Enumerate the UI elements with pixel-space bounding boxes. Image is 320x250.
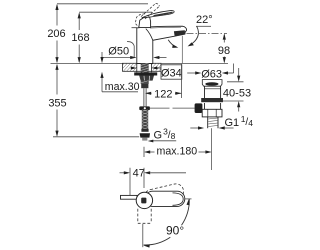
- countertop cross-section with hatching: [116, 62, 167, 72]
- 90 degree arc: [182, 199, 190, 225]
- svg-text:22°: 22°: [196, 14, 213, 26]
- dimension 168 extension line (top): [79, 11, 152, 13]
- pop-up body upper: [205, 86, 221, 98]
- svg-text:Ø50: Ø50: [108, 46, 129, 58]
- dimension 47 left tail arrow: [120, 172, 125, 174]
- faucet spout inner top line: [150, 26, 181, 29]
- stream vertical line: [181, 36, 183, 63]
- top view: 90 extension line at lever tip: [184, 198, 191, 200]
- dimension 47 extension lines: [130, 168, 144, 196]
- G3/8 leader underline and arrow: [153, 140, 177, 142]
- mounting nut: [139, 76, 154, 81]
- faucet shank threaded: [139, 63, 150, 84]
- dimension 40-53 top arrow: [227, 68, 244, 82]
- svg-text:G3/8: G3/8: [154, 127, 176, 142]
- Ø63 dimension arrows: [187, 64, 233, 74]
- Ø50 bent extension hook: [127, 42, 134, 58]
- dimension 168 arrowheads: [78, 12, 81, 63]
- svg-text:max.30: max.30: [105, 81, 140, 93]
- Ø34 dimension arrows at hole: [131, 67, 132, 69]
- lever handle base solid: [139, 17, 151, 28]
- dimension Ø50 line and arrows: [102, 57, 167, 59]
- dimension 206 arrowheads: [55, 4, 58, 64]
- pop-up knob: [195, 103, 203, 113]
- mounting washer: [134, 72, 157, 75]
- top view: lever down position (dashed): [138, 209, 151, 224]
- svg-text:122: 122: [154, 89, 172, 101]
- 22 degree small arc arrow: [168, 40, 176, 47]
- top view: lever (solid): [145, 191, 185, 206]
- pop-up waste flange: [202, 80, 222, 87]
- top view: lever rotated (dashed): [143, 182, 185, 206]
- G3/8 stub: [142, 138, 147, 141]
- spout axis dash-dot line: [187, 32, 228, 34]
- G3/8 hose nut: [140, 133, 150, 137]
- hose fitting below shank: [141, 84, 148, 88]
- countertop reference extension line (left): [51, 63, 123, 65]
- pop-up locknut: [202, 109, 222, 117]
- pop-up plug dark: [205, 82, 218, 85]
- countertop reference extension line (right): [161, 63, 228, 65]
- svg-text:40-53: 40-53: [223, 88, 251, 100]
- 22 degree big arc arrow: [189, 26, 198, 45]
- pop-up pipe centerline: [211, 128, 213, 170]
- hose collar band: [141, 129, 148, 132]
- top view: pull rod knob stub: [121, 195, 138, 199]
- svg-text:355: 355: [48, 98, 66, 110]
- top view: cartridge dark mark: [141, 198, 146, 204]
- dimension max.180 line: [145, 151, 210, 153]
- G1 1/4 dimension arrows: [190, 127, 233, 129]
- dimension max.30 leader shelf: [102, 78, 138, 92]
- svg-text:90°: 90°: [166, 224, 184, 238]
- dimension 206 vertical line: [56, 5, 58, 62]
- pop-up clamp ring: [201, 98, 223, 102]
- faucet body crease line: [146, 29, 153, 41]
- lever handle solid: [142, 11, 174, 18]
- faucet body top-left stub line: [132, 27, 138, 29]
- dimension max.30 upper arrow: [101, 52, 103, 58]
- Ø34 boxed label: [161, 65, 182, 79]
- dimension 122 line: [146, 64, 182, 98]
- faucet aerator: [174, 30, 185, 36]
- pull rod: [143, 88, 145, 106]
- dimension 355 vertical line: [56, 65, 58, 136]
- pop-up threaded pipe: [208, 117, 218, 128]
- lever handle blade underside shading: [154, 12, 173, 16]
- top view: lever end cap inner line: [173, 193, 184, 205]
- svg-text:168: 168: [71, 32, 89, 44]
- pop-up linkage tee: [139, 106, 150, 110]
- mounting hole edge lines: [136, 63, 138, 72]
- dimension 98 arrowheads: [223, 33, 226, 63]
- dimension 355 arrowheads: [55, 64, 58, 137]
- top view: vertical extension below: [142, 224, 144, 247]
- pop-up body lower: [205, 103, 221, 109]
- dimension 355 bottom reference line: [53, 136, 139, 138]
- dimension 40-53 bottom arrow: [223, 101, 244, 112]
- braided supply hose: [140, 109, 150, 130]
- lever handle raised (dashed): [135, 3, 159, 26]
- dimension 168 vertical line: [78, 14, 80, 63]
- dimension 206 extension line (top): [57, 3, 148, 5]
- 22 degree leader underline: [196, 25, 211, 27]
- svg-text:Ø34: Ø34: [161, 68, 182, 80]
- svg-text:206: 206: [47, 28, 65, 40]
- svg-text:max.180: max.180: [157, 145, 198, 157]
- dimension max.180 extension tick: [143, 147, 145, 157]
- dimension 47 right tail arrow: [150, 172, 186, 174]
- pop-up linkage rod line: [150, 107, 170, 109]
- svg-text:98: 98: [218, 45, 230, 57]
- top view: body circle: [136, 192, 152, 208]
- svg-text:47: 47: [133, 168, 145, 180]
- svg-text:G11/4: G11/4: [225, 114, 254, 129]
- faucet body outline: [137, 26, 187, 63]
- dimension 98 vertical line: [223, 35, 225, 63]
- svg-text:Ø63: Ø63: [201, 68, 222, 80]
